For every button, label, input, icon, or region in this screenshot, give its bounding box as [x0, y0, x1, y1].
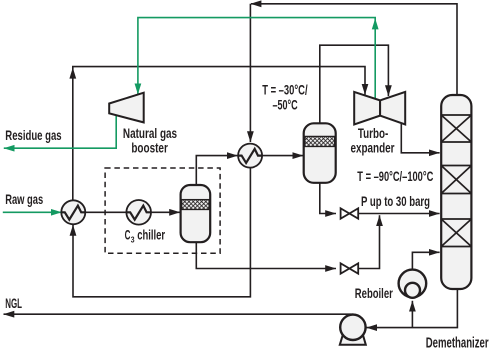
wire chiller to chiller separator: [151, 211, 180, 213]
heat exchanger C3 chiller: [126, 200, 151, 225]
wire left HX to C3 chiller: [85, 211, 126, 213]
svg-text:3: 3: [131, 234, 135, 244]
vessel cold separator: [304, 123, 336, 183]
wire cold separator bottoms to valve V1: [320, 182, 336, 214]
wire valve V2 riser joining P line: [358, 215, 379, 268]
wire residue gas outlet (green): [4, 115, 116, 148]
svg-text:Turbo-: Turbo-: [358, 125, 389, 141]
svg-text:Reboiler: Reboiler: [355, 285, 393, 301]
wire demethanizer overhead: column top up, left along top, down into central HX: [250, 4, 457, 142]
vessel chiller separator: [181, 185, 211, 242]
svg-text:T = –30°C/: T = –30°C/: [262, 83, 308, 98]
valve V1 (JT letdown): [341, 208, 359, 218]
node arrow recycle corner (up-pointing, green): [372, 18, 379, 29]
svg-text:Natural gas: Natural gas: [123, 125, 177, 141]
wire valve V1 to demethanizer (P up to 30 barg): [358, 213, 439, 215]
svg-text:–50°C: –50°C: [273, 97, 298, 112]
svg-text:booster: booster: [131, 140, 168, 156]
node arrow overhead corner (left-pointing): [250, 0, 261, 7]
dashed battery-limit box (C3 chiller package): [105, 168, 220, 253]
wire cold recycle: central HX bottom down, left, up into left HX bottom: [73, 168, 250, 297]
svg-text:Demethanizer: Demethanizer: [426, 335, 489, 352]
pump NGL: [340, 315, 366, 345]
wire reboiler feed branch: [411, 301, 413, 328]
wire reboiler vapor return to demethanizer: [412, 252, 439, 270]
wire chiller separator bottoms to valve V2: [196, 242, 336, 269]
svg-text:expander: expander: [351, 140, 395, 156]
node arrow riser top (up-pointing): [69, 68, 76, 79]
turbo-expander (bowtie): [354, 92, 405, 125]
reboiler: [399, 270, 427, 298]
svg-text:T = –90°C/–100°C: T = –90°C/–100°C: [357, 169, 433, 184]
packing section 2: [441, 166, 471, 194]
svg-text:C: C: [125, 227, 131, 243]
wire recompressor recycle (green): turbo center up, left, down into booster: [138, 18, 375, 99]
svg-text:chiller: chiller: [137, 227, 165, 243]
packing section 1: [441, 115, 471, 142]
wire separator overhead: separator top up, right, down into turbo right inlet: [320, 45, 389, 124]
wire residue riser: left HX top up, right along y=67, down into turbo left inlet: [73, 67, 365, 201]
svg-text:P up to 30 barg: P up to 30 barg: [361, 193, 430, 209]
wire expander outlet to demethanizer feed: [401, 123, 439, 153]
valve V2 (liquid letdown): [341, 263, 359, 273]
wire raw gas inlet (green): [3, 211, 62, 213]
svg-text:Residue gas: Residue gas: [5, 127, 61, 143]
wire chiller separator overhead to central HX: [196, 156, 237, 186]
svg-text:Raw gas: Raw gas: [5, 191, 43, 207]
compressor natural gas booster: [109, 93, 144, 123]
packing section 3: [441, 219, 471, 247]
heat exchanger E1 (gas/gas, left): [61, 200, 85, 224]
wire NGL product line: [4, 313, 354, 315]
heat exchanger E2 (central, gas/gas): [238, 144, 262, 168]
wire demethanizer bottoms to pump: [366, 288, 457, 328]
wire central HX to cold separator: [262, 155, 303, 157]
column demethanizer: [441, 95, 471, 289]
svg-text:NGL: NGL: [5, 295, 22, 311]
